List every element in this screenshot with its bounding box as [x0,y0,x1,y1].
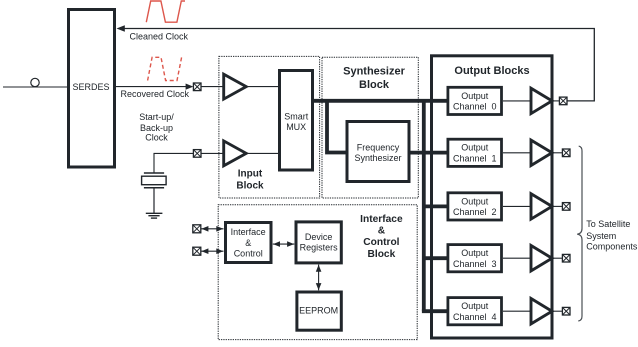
wire: buffer 0 to pad [551,100,560,102]
bus: Smart MUX output to Output Channel 0 [313,99,447,103]
svg-text:To Satellite: To Satellite [586,219,630,229]
svg-text:Output: Output [461,248,489,258]
wire: buffer 4 to pad [551,310,563,312]
bus: stub to Output Channel 3 [424,256,448,260]
ground [146,213,163,218]
Interface & Control [226,223,272,263]
Output Channel 0 [448,87,502,114]
svg-text:Output: Output [461,196,489,206]
wire: buffer 1 to pad [551,152,563,154]
pad: output channel 4 [562,307,570,315]
svg-text:Start-up/: Start-up/ [139,112,174,122]
label: Start-up/Back-up Clock [139,112,174,143]
output buffer 4 [531,299,552,324]
bus: stub to Output Channel 2 [424,204,448,208]
svg-text:Channel 0: Channel 0 [453,102,497,112]
Synthesizer Block dashed container [322,57,418,198]
wire: channel 0 to buffer [503,100,530,102]
svg-text:Smart: Smart [284,111,309,121]
output buffer 1 [531,140,552,165]
Output Blocks container [432,56,553,338]
svg-text:System: System [586,231,616,241]
Frequency Synthesizer [347,122,409,182]
svg-text:&: & [245,238,251,248]
Output Channel 3 [448,245,502,272]
input buffer 2 [224,141,247,166]
output buffer 0 [531,88,552,113]
svg-text:Output Blocks: Output Blocks [454,65,529,77]
Input Block dashed container [219,56,320,198]
arrowhead into SERDES [117,25,125,32]
wire: Interface & Control to Device Registers [273,243,295,245]
bus: tap down into Frequency Synthesizer [327,101,346,153]
SERDES block [69,10,115,168]
pad: output channel 0 [559,97,567,105]
bus: stub to Output Channel 4 [422,309,448,313]
svg-text:Device: Device [305,232,333,242]
input circle terminal [31,78,39,86]
wire: buffer 1 to Smart MUX [246,86,279,88]
wire: Device Registers to EEPROM [318,265,320,291]
label: To Satellite System Components [586,219,638,251]
Device Registers [296,222,341,263]
cleaned clock waveform (solid red) [146,1,185,22]
svg-text:SERDES: SERDES [72,82,109,92]
arrowhead recovered clock [186,84,194,90]
Interface & Control Block dashed container [218,205,417,340]
svg-text:EEPROM: EEPROM [299,306,338,316]
wire: buffer 3 to pad [551,257,563,259]
svg-text:Channel 1: Channel 1 [453,154,497,164]
wire: channel 2 to buffer [503,205,530,207]
svg-text:Cleaned Clock: Cleaned Clock [130,32,189,42]
input buffer 1 [224,74,247,99]
svg-text:Synthesizer: Synthesizer [343,66,405,78]
svg-text:Channel 3: Channel 3 [453,259,497,269]
svg-text:Block: Block [236,181,264,192]
svg-text:Recovered Clock: Recovered Clock [121,89,190,99]
bus: vertical distribution drop [422,99,426,311]
brace: outputs to satellite system [577,146,582,321]
pad: output channel 2 [562,203,570,211]
svg-text:Output: Output [461,91,489,101]
svg-text:Clock: Clock [145,133,168,143]
pad: output channel 1 [562,149,570,157]
recovered clock waveform (dashed red) [148,57,182,80]
pad: recovered clock input [193,83,201,91]
wire: recovered clock SERDES to pad [116,86,187,88]
svg-text:Input: Input [238,169,263,180]
crystal Y1 [142,173,167,213]
pad: start-up clock input [193,150,201,158]
wire: pad 2 to Interface & Control [201,250,224,252]
Output Channel 1 [448,139,502,166]
pad: output channel 3 [562,254,570,262]
svg-text:Components: Components [586,241,638,251]
bus: Frequency Synthesizer output to Output Channel 1 [409,151,448,155]
wire: channel 1 to buffer [503,152,530,154]
EEPROM [297,292,341,330]
svg-text:Interface: Interface [360,214,403,225]
svg-text:Output: Output [461,143,489,153]
pad: control interface 1 [193,225,201,233]
svg-text:Output: Output [461,301,489,311]
wire: channel 3 to buffer [503,257,530,259]
wire: crystal to start-up pad [154,153,193,172]
Smart MUX [280,71,313,171]
svg-text:Block: Block [359,79,390,91]
svg-text:Registers: Registers [300,242,339,252]
svg-text:Channel 2: Channel 2 [453,207,497,217]
svg-text:&: & [378,226,386,237]
Output Channel 4 [448,298,502,325]
wire: buffer 2 to pad [551,205,563,207]
svg-text:Interface: Interface [231,227,266,237]
wire: channel 4 to buffer [503,310,530,312]
svg-text:MUX: MUX [286,122,306,132]
svg-text:Channel 4: Channel 4 [453,312,497,322]
Output Channel 2 [448,193,502,220]
svg-text:Synthesizer: Synthesizer [354,153,401,163]
output buffer 3 [531,246,552,271]
svg-text:Frequency: Frequency [357,143,400,153]
svg-text:Control: Control [234,249,263,259]
wire: pad 1 to Interface & Control [201,228,224,230]
wire: pad to input buffer 1 [201,86,225,88]
wire: buffer 2 to Smart MUX [246,152,279,154]
output buffer 2 [531,194,552,219]
svg-text:Back-up: Back-up [140,123,173,133]
pad: control interface 2 [193,247,201,255]
svg-text:Block: Block [368,249,396,260]
wire: pad to input buffer 2 [201,152,225,154]
svg-text:Control: Control [363,237,399,248]
wire: serial input into SERDES [3,86,68,88]
wire: cleaned clock feedback from output channel 0 to SERDES [124,29,595,101]
